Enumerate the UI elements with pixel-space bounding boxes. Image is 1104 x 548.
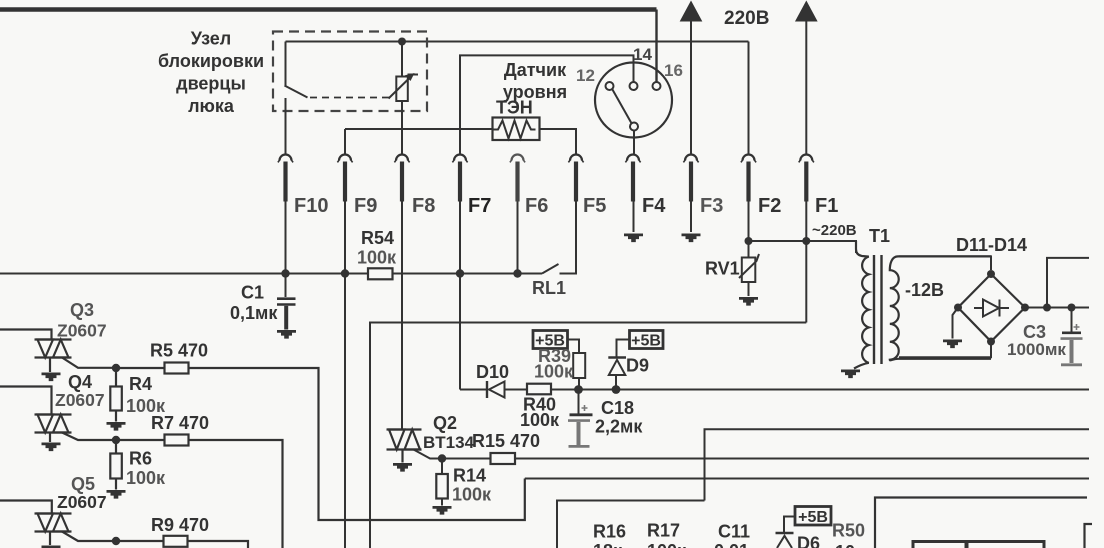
node F2 [745, 237, 753, 245]
node output 2 [1068, 304, 1076, 312]
svg-text:дверцы: дверцы [176, 74, 246, 94]
label ~220V [812, 222, 857, 239]
svg-text:~220В: ~220В [812, 222, 857, 239]
wire pot/F9/F8 link y=129 [345, 129, 493, 154]
svg-text:C18: C18 [601, 398, 634, 418]
label Q2 type [423, 433, 475, 452]
diode D9 [608, 340, 629, 390]
svg-text:F3: F3 [700, 195, 723, 217]
svg-text:Z0607: Z0607 [55, 390, 105, 410]
svg-text:C3: C3 [1023, 322, 1046, 342]
resistor R5 [116, 363, 189, 374]
label C18 value [595, 417, 643, 437]
label R16 value [593, 541, 623, 548]
label R6 [129, 449, 152, 469]
label F10 [294, 195, 328, 217]
wire top 220V thick bus [0, 7, 657, 12]
svg-text:D6: D6 [797, 534, 820, 548]
svg-text:F5: F5 [583, 195, 606, 217]
wire F3 tail [690, 202, 692, 233]
node bridge bottom [987, 338, 995, 346]
switch bottom contact to F10 [285, 98, 287, 154]
label R4 value [126, 396, 166, 416]
wire F7 tail down to D10 row [459, 202, 461, 390]
label TEN [496, 98, 533, 118]
svg-text:R5 470: R5 470 [150, 341, 208, 361]
svg-text:100к: 100к [357, 248, 397, 268]
ground under C1 [277, 330, 296, 339]
label F6 [525, 195, 548, 217]
ground under F3 [682, 234, 701, 243]
svg-text:R17: R17 [647, 521, 680, 541]
220V arrow 2 [796, 2, 817, 154]
connector F9 [337, 155, 352, 202]
node F6-bus [513, 269, 521, 277]
connector F8 [394, 155, 409, 202]
label pin 12 [576, 66, 595, 85]
ground under bridge [943, 340, 962, 349]
svg-text:F8: F8 [412, 195, 435, 217]
potentiometer in door lock [389, 42, 419, 130]
block corner right [1085, 524, 1093, 548]
sensor switch blade [612, 89, 631, 123]
svg-text:100к: 100к [520, 410, 560, 430]
ground under T1 primary [841, 370, 860, 379]
label Q4 [68, 372, 92, 392]
svg-text:+5В: +5В [631, 333, 661, 350]
label F5 [583, 195, 606, 217]
label C11 [718, 522, 750, 542]
label C3 [1023, 322, 1046, 342]
label R4 [129, 374, 152, 394]
connector F4 [625, 155, 640, 202]
label F2 [758, 195, 781, 217]
resistor R15 [442, 453, 515, 464]
triac Q3 [0, 330, 72, 373]
wire F9 tail long vertical [344, 202, 346, 548]
svg-text:D11-D14: D11-D14 [956, 235, 1027, 255]
wire row E [557, 501, 705, 548]
svg-text:18к: 18к [593, 541, 623, 548]
node R15/R14 [438, 454, 446, 462]
node pot top [398, 38, 406, 46]
node R5 [112, 364, 120, 372]
svg-text:F6: F6 [525, 195, 548, 217]
svg-text:D10: D10 [476, 362, 509, 382]
svg-text:F2: F2 [758, 195, 781, 217]
heater TEN box [493, 118, 540, 141]
svg-text:R54: R54 [361, 228, 394, 248]
svg-text:блокировки: блокировки [158, 51, 264, 71]
label R16 [593, 522, 626, 542]
switch in door lock: top contact [285, 42, 287, 86]
svg-text:F10: F10 [294, 195, 328, 217]
label D9 [626, 356, 649, 376]
label R54 [361, 228, 394, 248]
svg-text:220В: 220В [724, 8, 769, 29]
svg-text:+5В: +5В [535, 333, 565, 350]
label +5V box1 text [535, 333, 565, 350]
label Q4 type [55, 390, 105, 410]
wire F1 tail [805, 202, 807, 242]
wire R7 to bottom edge [189, 440, 283, 548]
svg-text:100к: 100к [126, 468, 166, 488]
connectors F1-F10 [278, 155, 814, 202]
resistor R40 [527, 384, 551, 395]
label R17 value [647, 541, 687, 548]
transformer T1 primary [854, 241, 869, 369]
sensor common pin [630, 123, 638, 131]
triac Q2 [387, 430, 422, 463]
varistor RV1 [739, 241, 759, 296]
wire F2 tail [748, 202, 750, 242]
wire row B2 [705, 429, 1090, 500]
svg-text:100к: 100к [647, 541, 687, 548]
wire secondary top to bridge [899, 256, 991, 270]
door lock unit dashed box [273, 32, 427, 112]
level sensor circle [595, 63, 672, 138]
label C18 [601, 398, 634, 418]
label R54 value [357, 248, 397, 268]
wire output up and right [1047, 258, 1089, 308]
wire bus drop to pin 16 [655, 10, 657, 83]
wire row D [525, 478, 1089, 480]
svg-text:R7 470: R7 470 [151, 413, 209, 433]
label R17 [647, 521, 680, 541]
node F7-bus [456, 269, 464, 277]
resistor R6 [110, 440, 122, 490]
wire R9 to bottom edge [188, 541, 249, 548]
wire R15 row to right edge [515, 458, 1089, 460]
label R15 [472, 431, 540, 451]
connector F2 [741, 155, 756, 202]
svg-text:Узел: Узел [191, 29, 231, 49]
svg-text:100к: 100к [534, 362, 574, 382]
label D11-D14 [956, 235, 1027, 255]
svg-text:RL1: RL1 [532, 278, 566, 298]
svg-text:BT134: BT134 [423, 433, 475, 452]
resistor R7 [116, 435, 189, 446]
svg-text:F7: F7 [468, 195, 491, 217]
ground under R14 [433, 506, 452, 515]
svg-text:10: 10 [835, 542, 855, 548]
label -12V [905, 280, 944, 300]
220V arrow 1 [681, 2, 702, 154]
node F1 [802, 237, 810, 245]
label Q3 type [57, 321, 107, 341]
svg-text:Q3: Q3 [70, 300, 94, 320]
ground under Q4 [42, 443, 61, 452]
wire F2-F1 link and to T1 [749, 241, 857, 253]
node bridge right [1021, 304, 1029, 312]
sensor pin 12 [606, 82, 614, 90]
node bridge left [954, 304, 962, 312]
wire F2 drop [748, 42, 750, 154]
label +5V box2 text [631, 333, 661, 350]
wire R5 to bottom right [189, 368, 525, 520]
svg-text:R14: R14 [453, 466, 486, 486]
node F9-bus [341, 269, 349, 277]
main bus y=273.5 left part [0, 273, 368, 275]
sensor pin 14 [630, 82, 638, 90]
label T1 [869, 226, 890, 246]
resistor R9 [116, 536, 188, 547]
svg-text:R16: R16 [593, 522, 626, 542]
connector F1 [799, 155, 814, 202]
svg-text:C1: C1 [241, 283, 264, 303]
capacitor C1 [277, 274, 296, 330]
label R7 [151, 413, 209, 433]
label D6 [797, 534, 820, 548]
svg-text:Z0607: Z0607 [57, 321, 107, 341]
ground under Q5 [42, 546, 61, 548]
svg-text:14: 14 [633, 45, 652, 64]
label F7 [468, 195, 491, 217]
label F8 [412, 195, 435, 217]
wire bridge output [1025, 307, 1089, 309]
connector F7 [452, 155, 467, 202]
resistor R54 [368, 268, 393, 279]
label R6 value [126, 468, 166, 488]
capacitor C18 [568, 390, 593, 447]
label R5 [150, 341, 208, 361]
wire F5 tail to RL1 contact [560, 202, 577, 274]
triac Q5 [0, 501, 72, 546]
node bridge top [987, 270, 995, 278]
wire F1 down to row B [805, 241, 807, 323]
svg-text:R4: R4 [129, 374, 152, 394]
svg-text:F4: F4 [642, 195, 666, 217]
resistor R39 [568, 340, 586, 390]
block inner box 1 [913, 542, 966, 548]
svg-text:1000мк: 1000мк [1007, 340, 1066, 359]
triac Q4 [0, 387, 72, 443]
svg-text:ТЭН: ТЭН [496, 98, 533, 118]
node R39/C18 [574, 385, 583, 394]
label F9 [354, 195, 377, 217]
wire Q2 gate to R15 node [414, 450, 443, 459]
label RV1 [705, 259, 740, 279]
label R14 [453, 466, 486, 486]
connector F10 [278, 155, 293, 202]
svg-text:Q5: Q5 [71, 474, 95, 494]
ground under RV1 [739, 297, 758, 306]
transformer T1 secondary [890, 256, 991, 360]
svg-text:R15 470: R15 470 [472, 431, 540, 451]
node R9 [112, 537, 120, 545]
label C1 [241, 283, 264, 303]
main bus y=273.5 right part [393, 273, 543, 275]
label R9 [151, 515, 209, 535]
svg-text:RV1: RV1 [705, 259, 740, 279]
label R40 [523, 395, 556, 415]
diode D10 [460, 381, 527, 398]
label pin 16 [664, 61, 683, 80]
wire Q4 gate to R7 node [62, 433, 116, 441]
label RL1 [532, 278, 566, 298]
label R39 [538, 346, 571, 366]
label C1 value [230, 303, 278, 323]
svg-text:R9 470: R9 470 [151, 515, 209, 535]
svg-text:Q4: Q4 [68, 372, 92, 392]
wire row B [370, 323, 806, 548]
svg-text:T1: T1 [869, 226, 890, 246]
+5V box 1 [533, 331, 568, 349]
connector F3 [683, 155, 698, 202]
label D10 [476, 362, 509, 382]
label 220V [724, 8, 769, 29]
svg-text:F9: F9 [354, 195, 377, 217]
+5V box 3 [795, 507, 831, 526]
wire door-lock net y=41.5 [286, 41, 749, 43]
mechanical link dashed [310, 97, 389, 99]
label R14 value [452, 485, 492, 505]
bridge inner diode [974, 300, 1009, 317]
capacitor C3 [1061, 308, 1083, 365]
label pin 14 [633, 45, 652, 64]
svg-text:Z0607: Z0607 [57, 492, 107, 512]
node F10-bus [281, 269, 289, 277]
svg-text:F1: F1 [815, 195, 838, 217]
ground under F4 [624, 234, 643, 243]
svg-text:-12В: -12В [905, 280, 944, 300]
node R7 [112, 436, 120, 444]
ground under Q3 [42, 373, 61, 382]
svg-text:D9: D9 [626, 356, 649, 376]
node D9 [612, 385, 621, 394]
label R39 value [534, 362, 574, 382]
+5V box 2 [630, 331, 664, 349]
svg-text:12: 12 [576, 66, 595, 85]
svg-text:Датчик: Датчик [504, 60, 567, 80]
ground under R4 [107, 422, 126, 431]
svg-text:люка: люка [188, 96, 235, 116]
wire D10 row to right edge [551, 389, 1089, 391]
label R40 value [520, 410, 560, 430]
svg-text:2,2мк: 2,2мк [595, 417, 643, 437]
resistor R14 [436, 459, 448, 506]
sensor pin 16 [653, 82, 661, 90]
control block box [875, 498, 1087, 548]
label C11 value [714, 541, 749, 548]
wire F8 tail to Q2 [401, 202, 403, 430]
label Q3 [70, 300, 94, 320]
diode D6 [776, 517, 796, 548]
label Q2 [433, 413, 457, 433]
connector F6 [510, 155, 525, 202]
label F1 [815, 195, 838, 217]
label R50 value [835, 542, 855, 548]
svg-text:R50: R50 [832, 521, 865, 541]
label level sensor [503, 60, 567, 102]
label +5V box3 text [798, 509, 828, 526]
svg-text:0,1мк: 0,1мк [230, 303, 278, 323]
connector F5 [568, 155, 583, 202]
svg-text:Q2: Q2 [433, 413, 457, 433]
resistor R4 [110, 368, 122, 422]
svg-text:+5В: +5В [798, 509, 828, 526]
wire F4 tail [633, 202, 635, 233]
label R50 [832, 521, 865, 541]
node output 1 [1043, 304, 1051, 312]
switch blade [285, 86, 308, 98]
label F3 [700, 195, 723, 217]
block inner box 2 [967, 542, 1044, 548]
diode bridge D11-D14 diamond [958, 274, 1025, 342]
wire secondary bottom to bridge [899, 345, 991, 357]
wire F6 tail to bus [517, 202, 519, 274]
svg-text:100к: 100к [452, 485, 492, 505]
label C3 value [1007, 340, 1066, 359]
relay contact RL1 blade [542, 264, 559, 274]
wire pin14 to F7 [460, 55, 634, 153]
svg-text:C11: C11 [718, 522, 750, 542]
ground under R6 [107, 490, 126, 499]
wire Q3 gate to R5 node [62, 358, 116, 368]
transformer T1 core [874, 255, 882, 364]
wire Q5 gate to R9 node [62, 532, 116, 542]
label Q5 [71, 474, 95, 494]
label Q5 type [57, 492, 107, 512]
wire bridge left to ground [953, 308, 959, 339]
label F4 [642, 195, 666, 217]
svg-text:R6: R6 [129, 449, 152, 469]
wire sensor common to F4 [633, 131, 635, 154]
svg-text:16: 16 [664, 61, 683, 80]
wire TEN to F5 [540, 129, 577, 154]
wire F10 tail to bus [285, 202, 287, 274]
label door lock unit [158, 29, 264, 117]
ground under Q2 [393, 463, 412, 472]
svg-text:0,01: 0,01 [714, 541, 749, 548]
